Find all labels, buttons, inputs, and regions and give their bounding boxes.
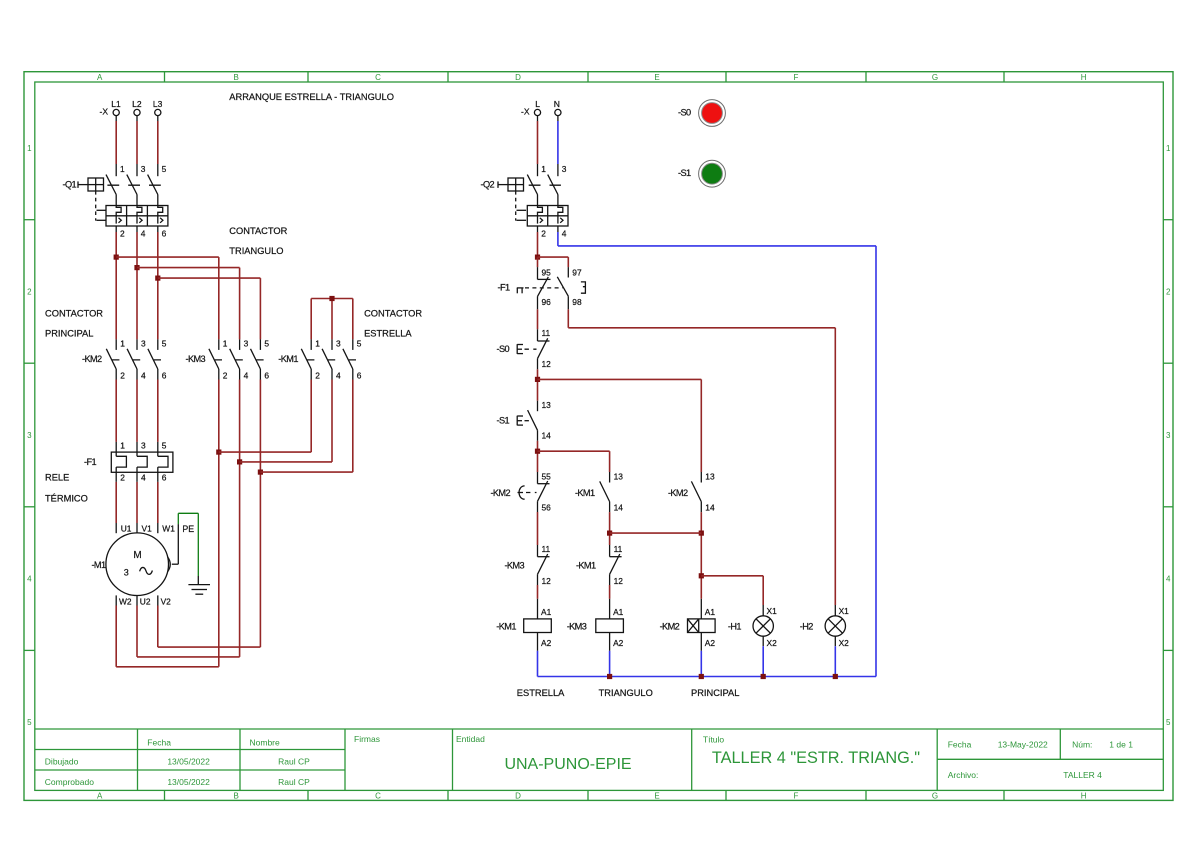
junction (699, 531, 704, 536)
wire F1-96 to S0 (537, 309, 539, 329)
contactor KM2 (principal) main contacts (82, 339, 167, 381)
svg-text:U2: U2 (140, 597, 151, 607)
contactor KM1 (estrella) main contacts (278, 339, 362, 381)
wire motor U2 to KM3/KM1 (137, 380, 240, 657)
wire L to Q2 (537, 116, 539, 164)
svg-text:F: F (794, 73, 799, 82)
svg-text:4: 4 (141, 370, 146, 380)
terminal -X L (control) (521, 99, 541, 117)
svg-text:2: 2 (315, 370, 320, 380)
svg-text:3: 3 (1166, 431, 1171, 440)
svg-text:3: 3 (141, 441, 146, 451)
circuit breaker Q2 (480, 164, 568, 239)
junction (134, 265, 139, 270)
svg-text:W1: W1 (162, 524, 175, 534)
svg-text:Comprobado: Comprobado (45, 777, 94, 787)
svg-text:14: 14 (542, 431, 552, 441)
junction (699, 573, 704, 578)
svg-text:Dibujado: Dibujado (45, 757, 79, 767)
wire KM2 pin 4 to F1 pin 3 (136, 380, 138, 453)
wire neutral N bus (blue) (538, 232, 877, 677)
svg-text:C: C (375, 73, 381, 82)
svg-text:6: 6 (162, 472, 167, 482)
svg-text:13/05/2022: 13/05/2022 (167, 757, 210, 767)
svg-text:5: 5 (162, 441, 167, 451)
svg-text:3: 3 (336, 339, 341, 349)
svg-text:PE: PE (182, 524, 194, 534)
svg-text:-S0: -S0 (678, 107, 691, 117)
lamp H1 (728, 605, 777, 648)
svg-text:-KM1: -KM1 (278, 354, 298, 364)
svg-text:12: 12 (614, 576, 624, 586)
svg-text:1: 1 (120, 164, 125, 174)
svg-text:5: 5 (27, 718, 32, 727)
svg-text:2: 2 (120, 370, 125, 380)
svg-text:A2: A2 (705, 638, 716, 648)
wire Q1 pin 6 to KM2 pin 5 (157, 232, 159, 339)
junction (329, 296, 334, 301)
contact KM2 55-56 (NC) (490, 472, 551, 513)
svg-text:6: 6 (357, 370, 362, 380)
svg-text:12: 12 (542, 359, 552, 369)
svg-text:-S1: -S1 (678, 168, 691, 178)
svg-text:56: 56 (542, 502, 552, 512)
svg-text:2: 2 (120, 472, 125, 482)
svg-text:RELE: RELE (45, 473, 69, 483)
svg-text:TÉRMICO: TÉRMICO (45, 494, 88, 504)
svg-text:-F1: -F1 (498, 283, 510, 293)
svg-text:C: C (375, 792, 381, 801)
contact KM1 13-14 (NO) (575, 472, 623, 513)
svg-text:Núm:: Núm: (1072, 740, 1092, 750)
wire motor W2 to KM3/KM1 (116, 380, 219, 667)
wire KM2-14 down to coil KM2 (700, 512, 702, 599)
pushbutton indicator S0 (red) (678, 100, 725, 127)
svg-text:1: 1 (27, 144, 32, 153)
junction (607, 674, 612, 679)
svg-text:14: 14 (614, 502, 624, 512)
svg-text:55: 55 (542, 472, 552, 482)
wire S0 to S1 (537, 369, 539, 400)
svg-text:1 de 1: 1 de 1 (1109, 740, 1133, 750)
text CONTACTOR PRINCIPAL (45, 309, 103, 339)
svg-text:3: 3 (27, 431, 32, 440)
wire coil KM3 A2 to N bus (609, 651, 611, 677)
wire to KM1 pin 4 (240, 380, 332, 462)
wire S1 to KM2 55 (537, 441, 539, 472)
wire branch to KM1 13 (538, 451, 610, 472)
svg-text:PRINCIPAL: PRINCIPAL (691, 688, 739, 698)
svg-text:4: 4 (562, 229, 567, 239)
svg-text:6: 6 (162, 229, 167, 239)
svg-text:3: 3 (244, 339, 249, 349)
svg-text:L3: L3 (153, 99, 163, 109)
svg-text:2: 2 (541, 229, 546, 239)
wire F1 pin 2 to motor U1 (115, 482, 117, 533)
wire Q1 pin 4 to KM2 pin 3 (136, 232, 138, 339)
junction (237, 459, 242, 464)
svg-text:-X: -X (521, 107, 530, 117)
thermal relay F1 auxiliary contact 95-96 97-98 (498, 257, 586, 309)
svg-text:TRIANGULO: TRIANGULO (229, 246, 283, 256)
svg-text:A: A (97, 73, 103, 82)
svg-text:X1: X1 (839, 606, 850, 616)
svg-text:-Q1: -Q1 (62, 180, 76, 190)
svg-text:4: 4 (141, 229, 146, 239)
svg-text:Raul CP: Raul CP (278, 757, 310, 767)
svg-text:Nombre: Nombre (250, 738, 281, 748)
pushbutton S0 (NC) (497, 328, 552, 369)
svg-text:B: B (234, 73, 239, 82)
svg-text:2: 2 (1166, 287, 1171, 296)
svg-text:4: 4 (1166, 574, 1171, 583)
thermal relay F1 (84, 441, 173, 483)
svg-text:CONTACTOR: CONTACTOR (364, 309, 422, 319)
text RELE TERMICO (45, 473, 88, 504)
wire motor V2 to KM3/KM1 (158, 380, 261, 648)
svg-text:CONTACTOR: CONTACTOR (229, 226, 287, 236)
svg-text:13: 13 (542, 400, 552, 410)
svg-text:-Q2: -Q2 (480, 180, 494, 190)
terminal N (554, 99, 561, 116)
wire KM1 star bridge (311, 299, 353, 340)
wire branch to KM3 pin 3 (137, 268, 240, 340)
svg-text:H: H (1081, 792, 1087, 801)
junction (761, 674, 766, 679)
wire F1 pin 4 to motor V1 (136, 482, 138, 533)
svg-text:ARRANQUE ESTRELLA - TRIANGULO: ARRANQUE ESTRELLA - TRIANGULO (229, 92, 394, 102)
svg-text:V2: V2 (161, 597, 172, 607)
wire to KM1 pin 2 (219, 380, 311, 453)
svg-text:Raul CP: Raul CP (278, 777, 310, 787)
terminal -X L1 (100, 99, 122, 117)
svg-text:G: G (932, 792, 938, 801)
contact KM3 11-12 (NC) (504, 544, 551, 586)
svg-text:M: M (133, 550, 141, 561)
svg-text:-KM1: -KM1 (575, 488, 595, 498)
contact KM2 13-14 (NO) (668, 472, 715, 513)
contact KM1 11-12 (NC) (576, 544, 623, 586)
svg-text:2: 2 (223, 370, 228, 380)
junction (114, 255, 119, 260)
svg-text:ESTRELLA: ESTRELLA (517, 688, 565, 698)
wire F1-98 to lamp H2 (568, 309, 835, 605)
junction (699, 674, 704, 679)
junction (535, 255, 540, 260)
svg-text:6: 6 (162, 370, 167, 380)
svg-text:U1: U1 (121, 524, 132, 534)
svg-text:-KM3: -KM3 (567, 621, 587, 631)
junction (607, 531, 612, 536)
wire coil KM2 A2 to N bus (700, 651, 702, 677)
wire branch to KM2 13 (538, 379, 702, 472)
svg-text:E: E (654, 73, 659, 82)
svg-text:UNA-PUNO-EPIE: UNA-PUNO-EPIE (504, 756, 631, 773)
svg-text:97: 97 (572, 268, 582, 278)
svg-text:D: D (515, 792, 521, 801)
svg-text:-S0: -S0 (497, 344, 510, 354)
svg-text:ESTRELLA: ESTRELLA (364, 329, 412, 339)
svg-text:1: 1 (120, 339, 125, 349)
svg-text:B: B (234, 792, 239, 801)
svg-text:-X: -X (100, 107, 109, 117)
svg-text:11: 11 (614, 544, 623, 554)
svg-text:11: 11 (542, 328, 551, 338)
svg-text:6: 6 (264, 370, 269, 380)
svg-text:11: 11 (542, 544, 551, 554)
svg-text:CONTACTOR: CONTACTOR (45, 309, 103, 319)
svg-text:13: 13 (614, 472, 624, 482)
svg-text:13: 13 (705, 472, 715, 482)
svg-text:H: H (1081, 73, 1087, 82)
text CONTACTOR ESTRELLA (364, 309, 422, 339)
svg-text:3: 3 (141, 164, 146, 174)
svg-text:1: 1 (541, 164, 546, 174)
circuit breaker Q1 (62, 164, 167, 239)
svg-text:Fecha: Fecha (948, 740, 972, 750)
wire coil KM1 A2 to N bus (537, 651, 539, 677)
svg-text:A2: A2 (613, 638, 624, 648)
svg-text:2: 2 (120, 229, 125, 239)
wire to KM1 pin 6 (260, 380, 352, 473)
wire KM2 pin 2 to F1 pin 1 (115, 380, 117, 453)
svg-text:E: E (654, 792, 659, 801)
svg-text:3: 3 (562, 164, 567, 174)
svg-text:-KM2: -KM2 (668, 488, 688, 498)
svg-text:Fecha: Fecha (147, 738, 171, 748)
svg-text:D: D (515, 73, 521, 82)
wire lamp H2 X2 to N bus (834, 646, 836, 676)
pushbutton indicator S1 (green) (678, 160, 725, 187)
wire branch to KM3 pin 5 (158, 278, 261, 339)
svg-text:X1: X1 (767, 606, 778, 616)
svg-text:A: A (97, 792, 103, 801)
svg-text:-M1: -M1 (91, 560, 106, 570)
coil KM3 (567, 599, 624, 651)
svg-text:5: 5 (162, 339, 167, 349)
svg-text:TRIANGULO: TRIANGULO (599, 688, 653, 698)
svg-text:X2: X2 (767, 638, 778, 648)
svg-text:Firmas: Firmas (354, 734, 380, 744)
svg-text:1: 1 (223, 339, 228, 349)
svg-text:PRINCIPAL: PRINCIPAL (45, 329, 93, 339)
svg-text:4: 4 (244, 370, 249, 380)
svg-text:-KM2: -KM2 (660, 621, 680, 631)
svg-text:5: 5 (357, 339, 362, 349)
svg-text:A1: A1 (541, 607, 552, 617)
coil KM1 (496, 599, 551, 651)
svg-text:5: 5 (1166, 718, 1171, 727)
svg-text:A1: A1 (613, 607, 624, 617)
wire branch to lamp H1 (701, 576, 763, 605)
text CONTACTOR TRIANGULO (229, 226, 287, 256)
svg-text:V1: V1 (142, 524, 153, 534)
svg-text:5: 5 (264, 339, 269, 349)
svg-text:G: G (932, 73, 938, 82)
svg-text:-KM1: -KM1 (496, 621, 516, 631)
svg-text:4: 4 (141, 472, 146, 482)
svg-text:1: 1 (1166, 144, 1171, 153)
svg-text:-H1: -H1 (728, 621, 741, 631)
wire KM3-12 to coil KM1 (537, 585, 539, 599)
svg-text:13-May-2022: 13-May-2022 (998, 740, 1048, 750)
svg-text:TALLER 4: TALLER 4 (1063, 770, 1102, 780)
motor M1 (91, 524, 175, 607)
svg-text:2: 2 (27, 287, 32, 296)
junction (535, 377, 540, 382)
svg-text:TALLER 4 "ESTR. TRIANG.": TALLER 4 "ESTR. TRIANG." (712, 749, 920, 767)
wire branch to KM3 pin 1 (116, 257, 219, 339)
contactor KM3 (triangulo) main contacts (186, 339, 270, 381)
svg-text:96: 96 (542, 297, 552, 307)
svg-text:W2: W2 (119, 597, 132, 607)
wire KM1-14 down (609, 512, 611, 545)
svg-text:X2: X2 (839, 638, 850, 648)
terminal L3 (153, 99, 163, 116)
svg-text:N: N (554, 99, 560, 109)
svg-text:4: 4 (336, 370, 341, 380)
wire KM1-12 to coil KM3 (609, 585, 611, 599)
wire tie KM1-14 / KM2-14 (610, 532, 702, 534)
svg-text:-H2: -H2 (800, 621, 813, 631)
wire L2 to Q1 (136, 116, 138, 164)
svg-text:95: 95 (542, 268, 552, 278)
svg-text:12: 12 (542, 576, 552, 586)
wire KM2-56 to KM3-11 (537, 512, 539, 545)
svg-text:A2: A2 (541, 638, 552, 648)
svg-text:-F1: -F1 (84, 457, 96, 467)
wire lamp H1 X2 to N bus (762, 646, 764, 676)
svg-text:-KM2: -KM2 (82, 354, 102, 364)
pushbutton S1 (NO) (497, 400, 552, 441)
svg-text:A1: A1 (705, 607, 716, 617)
coil KM2 (660, 599, 716, 651)
svg-text:L: L (535, 99, 540, 109)
wire L3 to Q1 (157, 116, 159, 164)
svg-text:13/05/2022: 13/05/2022 (167, 777, 210, 787)
svg-text:Archivo:: Archivo: (948, 770, 979, 780)
junction (535, 449, 540, 454)
svg-text:-KM1: -KM1 (576, 561, 596, 571)
svg-text:F: F (794, 792, 799, 801)
wire L1 to Q1 (115, 116, 117, 164)
wire Q1 pin 2 to KM2 pin 1 (115, 232, 117, 339)
svg-text:-KM2: -KM2 (490, 488, 510, 498)
svg-text:L2: L2 (132, 99, 142, 109)
svg-text:98: 98 (572, 297, 582, 307)
svg-text:-KM3: -KM3 (186, 354, 206, 364)
svg-text:3: 3 (141, 339, 146, 349)
svg-text:1: 1 (315, 339, 320, 349)
wire N to Q2 (557, 116, 559, 164)
wire Q2 to F1 aux (537, 232, 539, 257)
svg-text:5: 5 (162, 164, 167, 174)
junction (833, 674, 838, 679)
PE wire (168, 513, 199, 576)
svg-text:1: 1 (120, 441, 125, 451)
terminal L2 (132, 99, 142, 116)
lamp H2 (800, 605, 849, 648)
junction (216, 450, 221, 455)
svg-text:4: 4 (27, 574, 32, 583)
ground (188, 576, 210, 594)
svg-text:L1: L1 (111, 99, 121, 109)
wire KM2 pin 6 to F1 pin 5 (157, 380, 159, 453)
svg-text:14: 14 (705, 502, 715, 512)
junction (258, 470, 263, 475)
junction (155, 276, 160, 281)
svg-text:3: 3 (124, 568, 129, 578)
svg-text:-S1: -S1 (497, 416, 510, 426)
svg-text:-KM3: -KM3 (504, 561, 524, 571)
svg-text:Entidad: Entidad (456, 734, 485, 744)
svg-text:Título: Título (703, 735, 725, 745)
wire F1 pin 6 to motor W1 (157, 482, 159, 533)
